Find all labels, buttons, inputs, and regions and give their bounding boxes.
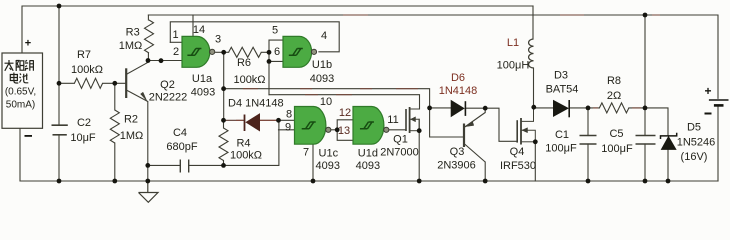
wire ground rail [20,128,718,181]
wire node to U1a pin2 [148,60,182,62]
wire C4 node line [148,164,224,166]
wire U1c pin8 stub [279,119,295,121]
svg-text:100kΩ: 100kΩ [230,150,262,162]
wire Q3 base [430,108,464,137]
svg-text:3: 3 [215,34,221,46]
svg-text:R2: R2 [124,114,138,126]
svg-text:U1a: U1a [192,73,213,85]
wire R6 right [261,51,269,53]
svg-text:4: 4 [321,30,327,42]
wire R6 left [224,51,229,53]
svg-text:1MΩ: 1MΩ [119,40,143,52]
wire R7 left [59,82,74,84]
svg-text:1: 1 [172,29,178,41]
wire D5 bottom [667,149,669,181]
wire pin3 node down to D4 [223,52,225,120]
svg-text:50mA): 50mA) [6,100,35,111]
inductor L1 [529,39,534,68]
wire U1c pin9 stub [279,129,295,131]
svg-text:1N5246: 1N5246 [677,137,716,149]
resistor R2 [110,110,119,143]
wire Q1 source to rail [418,119,420,181]
svg-text:R7: R7 [77,49,91,61]
wire top rail VIN [22,6,533,53]
wire L1 top lead [532,6,534,39]
wire L1 bottom lead [533,68,535,107]
op-amp gate U1a 4093 [182,36,215,67]
svg-text:Q4: Q4 [510,146,525,158]
capacitor C1 [580,135,597,137]
transistor Q2 2N2222 [126,62,148,101]
battery B1 [709,100,729,105]
svg-text:C4: C4 [173,127,187,139]
svg-text:D5: D5 [687,122,701,134]
svg-text:+: + [704,84,711,98]
label battery minus [705,113,712,115]
svg-text:2Ω: 2Ω [607,90,621,102]
svg-text:(0.65V,: (0.65V, [5,87,36,98]
wire D6 left [430,107,452,109]
wire U1b input bracket [269,40,283,95]
diode D6 1N4148 [451,101,465,117]
wire C1 top [587,108,589,136]
MOSFET Q4 IRF530 [517,108,535,145]
capacitor C4 [179,160,181,173]
svg-text:C5: C5 [609,128,623,140]
wire C4/R4 node to U1c inputs [224,120,279,165]
svg-text:U1b: U1b [312,59,332,71]
svg-text:(16V): (16V) [681,151,708,163]
svg-text:4093: 4093 [316,160,340,172]
wire D6 right [465,107,485,109]
diode D4 1N4148 [245,114,260,131]
wire Q3 collector down [484,162,486,181]
wire R3 top [147,15,149,20]
label minus terminal [25,135,33,137]
svg-text:Q1: Q1 [393,134,408,146]
svg-text:R6: R6 [237,57,251,69]
svg-text:5: 5 [272,25,278,37]
svg-text:4093: 4093 [356,160,380,172]
wire VDD/battery top line [148,15,718,98]
svg-text:4093: 4093 [191,87,215,99]
op-amp gate U1b 4093 [283,36,317,67]
capacitor C2 [52,124,68,126]
svg-text:10μF: 10μF [70,132,96,144]
wire R3 bottom to node [147,53,149,61]
wire pin14 supply stub [192,15,194,36]
wire U1b-input node to Q1 drain [269,95,420,109]
svg-text:Q2: Q2 [160,79,175,91]
wire C1 bottom [587,144,589,181]
svg-text:C2: C2 [77,117,91,129]
diode D3 BAT54 [554,100,570,117]
transistor Q3 2N3906 [464,113,485,163]
svg-text:7: 7 [303,147,309,159]
wire pin3 node to Q3 base line [224,89,430,108]
svg-text:2N3906: 2N3906 [437,160,476,172]
wire U1d input bracket [337,120,353,141]
solar cell battery box [2,53,43,128]
svg-text:2N7000: 2N7000 [380,147,419,159]
resistor R7 [74,78,102,88]
wire U1c pin7 to ground rail [312,145,314,181]
svg-text:2: 2 [173,46,179,58]
resistor R4 [219,128,228,161]
svg-text:14: 14 [193,24,205,36]
svg-text:100μF: 100μF [601,143,633,155]
wire Q3 emitter up [484,108,486,112]
wire C2/R7 branch [58,6,60,83]
wire U1a pin3 stub [216,51,224,53]
svg-text:6: 6 [274,46,280,58]
svg-text:1MΩ: 1MΩ [120,130,144,142]
resistor R6 [229,47,262,57]
op-amp gate U1d 4093 [353,107,389,145]
label solar cell chinese [5,60,34,83]
wire R2 top [114,83,116,110]
wire C5 top [644,108,646,136]
svg-text:100kΩ: 100kΩ [71,64,103,76]
svg-text:D4 1N4148: D4 1N4148 [228,98,284,110]
svg-text:9: 9 [285,122,291,134]
op-amp gate U1c 4093 [295,107,331,145]
svg-text:D3: D3 [554,70,568,82]
svg-text:U1c: U1c [319,147,339,159]
svg-text:C1: C1 [555,129,569,141]
wire R4 stubs [223,120,225,165]
svg-text:IRF530: IRF530 [500,160,536,172]
wire battery bottom [717,105,719,181]
resistor R3 [145,20,154,53]
svg-text:BAT54: BAT54 [546,84,579,96]
wire C5 bottom [644,144,646,181]
svg-text:11: 11 [387,114,398,126]
zener diode D5 1N5246 [661,133,677,150]
svg-text:2N2222: 2N2222 [149,92,188,104]
svg-text:100μH: 100μH [497,60,530,72]
svg-text:12: 12 [339,107,351,119]
svg-text:13: 13 [338,125,350,137]
wire C2 top [58,83,60,125]
wire Q4 gate [485,108,517,141]
wire Q4 source to rail [534,142,536,181]
wire R2 bottom [114,143,116,181]
wire U1c out stub [331,129,337,131]
svg-text:100kΩ: 100kΩ [233,74,265,86]
svg-text:680pF: 680pF [166,141,197,153]
svg-text:R4: R4 [236,138,250,150]
svg-text:1N4148: 1N4148 [439,85,478,97]
scan tint marks [236,15,660,120]
wire R7 right to Q2 base [103,82,127,84]
wire D4 left [224,119,245,121]
capacitor C5 [636,135,656,137]
resistor R8 [599,103,629,113]
svg-text:100μF: 100μF [545,143,577,155]
svg-text:8: 8 [286,109,292,121]
svg-text:+: + [25,38,31,50]
wire Q2 emitter to ground rail [147,102,149,182]
svg-text:U1d: U1d [358,147,378,159]
wire node to D3 [534,107,554,109]
ground [139,181,159,202]
svg-text:10: 10 [320,96,332,108]
wire VDD line down to output node [644,15,646,108]
svg-text:R3: R3 [126,27,140,39]
svg-text:R8: R8 [607,75,621,87]
wire D3 to C1 node [569,107,599,109]
MOSFET Q1 2N7000 [406,107,420,133]
wire pin1 stub [170,41,182,43]
svg-text:4093: 4093 [310,73,334,85]
svg-text:Q3: Q3 [450,146,465,158]
wire C2 bottom [58,135,60,181]
wire R8 right to C5 node [629,108,668,136]
wire D4 right [260,119,279,121]
svg-text:D6: D6 [451,72,465,84]
svg-text:L1: L1 [507,37,519,49]
wire U1d pin11 to Q1 gate [389,129,406,131]
wire feedback pin4 to pin1 [170,22,339,52]
